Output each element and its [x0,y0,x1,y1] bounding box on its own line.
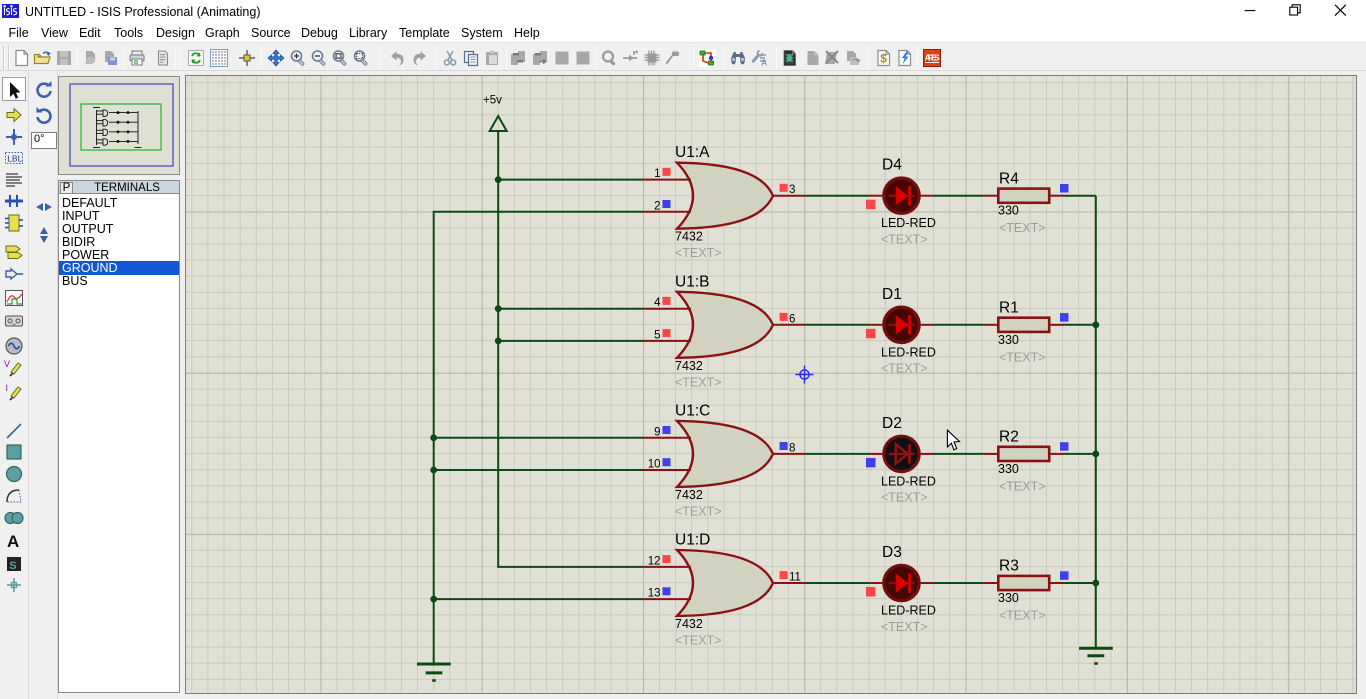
schematic edit window [185,75,1357,694]
toolbar button: zoom out [310,49,328,67]
svg-text:<TEXT>: <TEXT> [999,350,1046,364]
toolbar button: zoom all [331,49,349,67]
object selector list (TERMINALS) [58,194,180,693]
toolbar button: print [128,49,146,67]
animation state square at R4 right [1060,184,1069,193]
rotate anticlockwise button [33,106,55,128]
svg-text:LED-RED: LED-RED [881,216,936,230]
svg-text:S: S [9,560,16,572]
menu bar [0,23,1366,42]
svg-text:LED-RED: LED-RED [881,345,936,359]
toolbar button: copy [462,49,480,67]
svg-text:<TEXT>: <TEXT> [999,609,1046,623]
pin 13 (U1:D input B) [643,598,691,600]
toolbox: text script mode [3,169,25,191]
wire: +5v rail vertical, corner to pin 12 [498,131,643,567]
toolbar button: save design [55,49,73,67]
junction: right bus / row at y=324.8 [1092,321,1099,328]
svg-text:7432: 7432 [675,359,703,373]
toolbox: 2D text [3,530,25,552]
svg-text:U1:A: U1:A [675,144,710,161]
svg-text:D3: D3 [882,544,902,561]
toolbar button: zoom area [352,49,370,67]
or-gate U1:C (7432) [643,402,805,518]
main toolbar [0,42,1366,71]
mirror vertical button [33,224,55,246]
svg-text:11: 11 [789,572,801,584]
junction: right bus / row at y=453.9 [1092,451,1099,458]
svg-text:330: 330 [998,591,1019,605]
power rail +5v terminal [483,95,507,132]
toolbar button: packaging tool [643,49,661,67]
toolbox: voltage probe mode [3,358,25,380]
animation state square at R1 right [1060,313,1069,322]
animation state square at D2 anode [866,458,876,468]
svg-text:<TEXT>: <TEXT> [999,479,1046,493]
overview / world view panel [58,76,180,175]
LED D4 (LED-RED, lit) [869,157,936,247]
svg-text:330: 330 [998,333,1019,347]
toolbar button: make device [621,49,639,67]
toolbar button: cut [441,49,459,67]
svg-text:4: 4 [654,297,661,309]
svg-text:LED-RED: LED-RED [881,474,936,488]
wire: +5v branch to pin 4 [498,308,643,310]
svg-text:V: V [4,359,10,369]
toolbox: 2D circle [3,463,25,485]
pin 8 (U1:C output) [773,453,805,455]
svg-text:R1: R1 [999,299,1019,316]
junction: bus / pin9 [430,434,437,441]
toolbox: subcircuit mode [3,212,25,234]
wire: ground bus branch to pin 9 [434,437,644,439]
junction: +5v / pin5 [495,338,502,345]
wire: R2 to right bus [1064,453,1096,455]
svg-text:I: I [6,383,9,393]
resistor R4 (330) [983,170,1064,235]
svg-text:U1:D: U1:D [675,532,710,549]
object selector header [58,180,180,194]
toolbar button: open design [33,49,51,67]
toolbox: device pins mode [3,263,25,285]
toolbar button: export section [101,49,119,67]
wire: ground bus vertical with corner to pin 2 [434,212,644,664]
svg-text:<TEXT>: <TEXT> [675,375,722,389]
svg-text:9: 9 [654,426,660,438]
toolbar button: new design [13,49,31,67]
toolbox: 2D symbol [3,553,25,575]
animation state square at D4 anode [866,200,876,210]
toolbar button: redraw [187,49,205,67]
animation state square at D1 anode [866,329,876,339]
junction: +5v / pin1 [495,176,502,183]
resistor R1 (330) [983,299,1064,364]
svg-text:<TEXT>: <TEXT> [881,491,928,505]
title bar [0,0,1366,23]
resistor R3 (330) [983,558,1064,623]
svg-text:10: 10 [648,459,661,471]
junction: bus / pin10 [430,467,437,474]
svg-text:<TEXT>: <TEXT> [881,233,928,247]
svg-text:$: $ [880,52,887,66]
svg-text:2: 2 [654,200,660,212]
svg-text:<TEXT>: <TEXT> [675,504,722,518]
toolbar button: toggle origin [238,49,256,67]
wire: +5v branch to pin 5 [498,340,643,342]
svg-text:330: 330 [998,204,1019,218]
toolbox: 2D closed path [3,507,25,529]
svg-text:13: 13 [648,588,661,600]
wire: D3 cathode to R3 [934,582,984,584]
left mode toolbox [0,71,29,699]
svg-text:D1: D1 [882,286,902,303]
wire: ground bus branch to pin 13 [434,598,644,600]
svg-text:A: A [7,532,19,551]
svg-text:7432: 7432 [675,617,703,631]
wire: R1 to right bus [1064,324,1096,326]
svg-text:D4: D4 [882,157,902,174]
pin 2 (U1:A input B) [643,211,691,213]
toolbar button: property assignment tool [750,49,768,67]
wire: D1 cathode to R1 [934,324,984,326]
svg-text:D2: D2 [882,415,902,432]
ISIS application icon [2,4,19,18]
window minimize button [1240,0,1260,20]
svg-text:R3: R3 [999,558,1019,575]
svg-text:3: 3 [789,184,795,196]
window close button [1330,0,1350,20]
toolbar button: block delete [574,49,592,67]
pin 3 (U1:A output) [773,195,805,197]
toolbar button: remove sheet [823,49,841,67]
rotation angle field "0°" [31,132,57,149]
svg-text:LBL: LBL [7,154,22,164]
toolbar button: block rotate [553,49,571,67]
svg-text:<TEXT>: <TEXT> [675,634,722,648]
toolbar button: zoom in [289,49,307,67]
toolbar button: paste [483,49,501,67]
svg-text:<TEXT>: <TEXT> [881,362,928,376]
animation state square at R2 right [1060,442,1069,451]
or-gate U1:A (7432) [643,144,805,260]
toolbar button: pick parts [600,49,618,67]
toolbar button: redo [411,49,429,67]
svg-text:7432: 7432 [675,488,703,502]
svg-text:+5v: +5v [483,95,502,107]
LED D1 (LED-RED, lit) [869,286,936,376]
wire: right bus vertical to ground [1095,196,1097,648]
animation state square at R3 right [1060,571,1069,580]
LED D2 (LED-RED, off) [869,415,936,505]
toolbox: selection mode (active) [3,80,25,102]
svg-text:ARES: ARES [924,54,940,63]
svg-text:<TEXT>: <TEXT> [999,221,1046,235]
toolbar button: electrical rule check [896,49,914,67]
toolbar button: block move [531,49,549,67]
toolbar button: block copy [509,49,527,67]
toolbox: 2D marker [3,574,25,596]
toolbox: 2D line [3,420,25,442]
wire: D2 cathode to R2 [934,453,984,455]
pin 5 (U1:B input B) [643,340,691,342]
wire: R4 to right bus [1064,195,1096,197]
wire: ground bus branch to pin 10 [434,469,644,471]
or-gate U1:D (7432) [643,532,805,648]
toolbox: tape recorder mode [3,310,25,332]
svg-text:6: 6 [789,313,795,325]
svg-text:8: 8 [789,442,795,454]
svg-text:U1:C: U1:C [675,402,710,419]
toolbar button: new sheet [804,49,822,67]
toolbox: component mode [3,104,25,126]
ground terminal (left) [417,664,451,681]
toolbar button: netlist to ARES [923,49,941,67]
toolbar button: toggle grid (pressed) [210,49,228,67]
mouse cursor [947,430,959,450]
toolbar button: decompose [663,49,681,67]
svg-text:R2: R2 [999,429,1019,446]
toolbox: 2D box [3,441,25,463]
toolbox: graph mode [3,287,25,309]
svg-text:1: 1 [654,168,660,180]
mirror horizontal button [33,196,55,218]
rotate clockwise button [33,80,55,102]
ground terminal (right) [1079,648,1113,663]
junction: +5v / pin4 [495,305,502,312]
toolbar button: search and tag [729,49,747,67]
svg-text:<TEXT>: <TEXT> [675,246,722,260]
wire: D4 cathode to R4 [934,195,984,197]
wire: U1:C output to D2 anode [805,453,869,455]
wire: U1:B output to D1 anode [805,324,869,326]
toolbox: buses mode [3,190,25,212]
wire: U1:D output to D3 anode [805,582,869,584]
toolbar button: import section [82,49,100,67]
svg-text:<TEXT>: <TEXT> [881,620,928,634]
toolbar button: undo [388,49,406,67]
resistor R2 (330) [983,429,1064,494]
toolbar button: design explorer [781,49,799,67]
wire: +5v branch to pin 1 [498,179,643,181]
toolbox: terminals mode [3,240,25,262]
svg-text:R4: R4 [999,170,1019,187]
toolbox: generator mode [3,335,25,357]
toolbar button: goto sheet [844,49,862,67]
svg-text:U1:B: U1:B [675,273,709,290]
wire: U1:A output to D4 anode [805,195,869,197]
origin marker [796,366,814,384]
toolbar button: mark output area [154,49,172,67]
toolbar button: wire autorouter (pressed) [698,49,716,67]
pin 10 (U1:C input B) [643,469,691,471]
or-gate U1:B (7432) [643,273,805,389]
toolbar button: bill of materials [875,49,893,67]
junction: bus / pin13 [430,596,437,603]
svg-text:12: 12 [648,555,661,567]
pin 4 (U1:B input A) [643,308,691,310]
LED D3 (LED-RED, lit) [869,544,936,634]
pin 6 (U1:B output) [773,324,805,326]
pin 12 (U1:D input A) [643,566,691,568]
toolbox: current probe mode [3,382,25,404]
svg-text:LED-RED: LED-RED [881,604,936,618]
svg-text:A: A [762,59,768,68]
toolbox: 2D arc [3,485,25,507]
animation state square at D3 anode [866,587,876,597]
pin 11 (U1:D output) [773,582,805,584]
wire: R3 to right bus [1064,582,1096,584]
pin 9 (U1:C input A) [643,437,691,439]
junction: right bus / row at y=583.0 [1092,580,1099,587]
pin 1 (U1:A input A) [643,179,691,181]
toolbox: junction dot mode [3,126,25,148]
toolbox: wire label mode [3,147,25,169]
svg-text:5: 5 [654,329,660,341]
svg-text:7432: 7432 [675,230,703,244]
window restore button [1285,0,1305,20]
toolbar button: pan [267,49,285,67]
svg-text:330: 330 [998,462,1019,476]
